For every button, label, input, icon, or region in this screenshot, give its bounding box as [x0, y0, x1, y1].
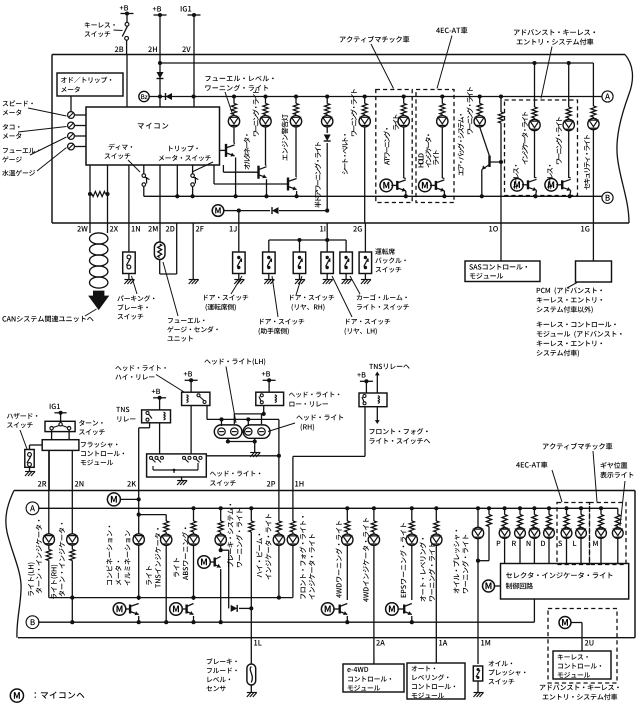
wire 1H [364, 407, 366, 457]
wire 2B to micom [126, 55, 128, 108]
brake fluid level sensor [247, 664, 256, 685]
auto leveling box [407, 663, 465, 699]
B rail top band [144, 195, 602, 197]
keyless module box [553, 651, 611, 679]
dashed box adv keyless [505, 100, 578, 196]
wire 2X [107, 165, 109, 233]
door switch rear LH [321, 252, 334, 274]
diode bus2 [166, 93, 173, 100]
M circle keyless [559, 617, 571, 629]
brake diode to 1L [221, 549, 229, 551]
wire 2M [159, 165, 161, 242]
label oil pressure switch [489, 661, 513, 667]
hi relay +B [184, 371, 192, 376]
+B terminal (2B) [121, 13, 134, 15]
label door switch driver [204, 295, 248, 301]
headlight feed line hi [207, 418, 279, 420]
label door switch passenger [260, 319, 304, 325]
label front fog switch he [369, 428, 427, 435]
lamp airbag warning light [479, 97, 481, 104]
odo/trip meter box [57, 73, 123, 96]
wire 2W [89, 165, 91, 233]
+B terminal (2H) [154, 14, 167, 16]
lamp turn indicator RH [71, 491, 73, 534]
label airbag warning [458, 114, 465, 176]
B rail bottom band [26, 616, 39, 629]
label gear position light [601, 462, 628, 469]
dashed box activematic (AT) [376, 90, 412, 203]
label 2K [127, 481, 136, 487]
label activematic bottom [543, 443, 613, 450]
sensor circles [68, 112, 75, 119]
label activematic top [340, 36, 410, 43]
label turn LH [28, 563, 35, 596]
parking brake switch [123, 252, 136, 274]
label flasher module [81, 442, 118, 448]
label TNS relay he [369, 364, 409, 370]
label fog indicator [300, 516, 307, 599]
wire 2R [48, 450, 50, 491]
M circle top [212, 205, 224, 217]
label keyless control module [537, 321, 616, 327]
label tachometer [3, 124, 20, 130]
label water temp gauge [2, 170, 35, 176]
lamp AT warning light [403, 97, 405, 104]
lamp feed bus (bus2) [149, 96, 602, 98]
headlight grounds [227, 438, 229, 441]
headlight feed line lo [234, 413, 263, 415]
dashed box 4EC-AT (HOLD) [416, 90, 454, 203]
buckle switch [359, 252, 372, 274]
lamp fog indicator [292, 491, 294, 521]
hl switch to 2P wire [206, 455, 279, 457]
label PCM [537, 287, 602, 294]
trip switch [192, 165, 194, 174]
label 4EC-AT bottom [516, 461, 547, 468]
label ABS warning [173, 558, 179, 577]
TNS relay box [142, 410, 171, 423]
label keyless warning [547, 165, 553, 190]
label brake fluid sensor [207, 658, 237, 664]
A bus [26, 502, 39, 515]
label turn switch [79, 420, 103, 426]
lo relay +B [262, 371, 270, 376]
label alternator warning [244, 134, 250, 169]
SAS module box [500, 223, 502, 261]
selector to B rail [533, 599, 535, 622]
label trip meter switch [169, 145, 198, 151]
wire 1L brake fluid [249, 506, 253, 510]
flasher module box [42, 440, 79, 451]
lamp auto leveling [434, 506, 438, 510]
lamp turn indicator LH [48, 450, 50, 534]
label 4EC-AT top [436, 27, 467, 34]
TNS relay to 2K [149, 423, 151, 428]
dimmer switch [143, 165, 145, 174]
label CAN system [2, 315, 93, 322]
lo relay box [256, 392, 284, 405]
driver M-Q8 illum [113, 603, 126, 616]
transistor Q2 [222, 165, 224, 172]
transistor Q1 [220, 149, 227, 151]
oil pressure switch [473, 666, 482, 681]
e-4WD box [343, 664, 404, 692]
label AT warning [384, 128, 391, 165]
driver M-Q5 HOLD [419, 179, 432, 192]
lamp TNS indicator [139, 514, 167, 516]
fog relay +B [357, 372, 365, 377]
lamp keyless warning light [568, 63, 570, 107]
label headlight switch [210, 471, 260, 477]
wire 2G [364, 223, 366, 252]
wire SAS feed 1O [500, 97, 502, 113]
lamp oil pressure warning [476, 506, 480, 510]
label hi-beam indicator [256, 534, 262, 578]
wire 2P [278, 419, 280, 491]
transistor Q airbag [480, 127, 490, 156]
lo relay outputs [263, 406, 265, 414]
headlight switch box [147, 454, 207, 477]
driver M-Q7 keyless warn [545, 179, 558, 192]
label 4WD indicator [363, 518, 369, 602]
driver M-Q10 brake [198, 556, 211, 569]
+B bus (bus1) [160, 62, 593, 64]
CAN twisted pair coil [90, 233, 108, 244]
label door switch rear RH [290, 295, 334, 301]
label fuel level warning [205, 76, 273, 82]
label headlight hi relay [115, 365, 165, 371]
label speedometer [3, 100, 33, 106]
label turn RH [51, 565, 58, 599]
lamp engine warning light [295, 97, 297, 104]
wire 1N [128, 165, 130, 252]
hi relay box [182, 392, 210, 405]
label seat belt warning [342, 134, 348, 174]
label HOLD indicator [418, 153, 423, 167]
label buckle switch [375, 248, 395, 254]
node A circle [602, 91, 613, 102]
pin labels top band [77, 226, 87, 232]
label door switch rear LH [346, 319, 390, 325]
driver M-Q9 ABS [170, 603, 183, 616]
lamp keyless indicator light [534, 63, 536, 107]
M circle selector [483, 580, 495, 592]
door switch driver side [233, 252, 246, 274]
label adv keyless bottom [540, 684, 619, 690]
IG1 terminal (2V) [188, 14, 201, 16]
gear position lamps P R N D S L M [503, 506, 507, 510]
headlight LH unit [214, 425, 242, 438]
wire 2N [71, 450, 73, 491]
resistor CAN [92, 191, 106, 196]
diode on 2H wire [157, 72, 164, 79]
lamp ABS warning [191, 506, 195, 510]
fog relay up arrow [376, 374, 378, 393]
label headlight RH [296, 414, 343, 420]
PCM box [592, 223, 594, 261]
label adv keyless top [514, 29, 595, 35]
collector rail [49, 597, 293, 599]
keyless switch [126, 14, 128, 23]
label TNS relay [116, 407, 129, 412]
wire 1J [238, 211, 240, 252]
label combination meter illum [106, 526, 112, 585]
M circle 2K [107, 493, 120, 506]
label fuel sender [168, 318, 205, 323]
fuel gauge sender unit [154, 242, 165, 260]
dashed adv keyless box bottom [548, 609, 617, 684]
driver M-Q6 keyless ind [511, 179, 524, 192]
lamp brake system warning [219, 506, 223, 510]
wires turn to flasher [51, 430, 53, 440]
TNS relay to hl switch [159, 423, 161, 454]
transistor Q3 [214, 183, 288, 185]
label brake system warning [227, 504, 233, 567]
TNS relay +B [152, 389, 160, 394]
lamp security light [592, 63, 594, 106]
label TNS indicator [146, 566, 152, 585]
buzzer Bz [139, 91, 149, 101]
label auto leveling [420, 538, 427, 602]
driver M-Q4 AT [380, 179, 393, 192]
micom box [86, 107, 220, 165]
lamp seat belt warning light [364, 97, 366, 104]
node B circle [602, 192, 613, 203]
hazard switch [30, 444, 43, 446]
fog relay down arrow [376, 407, 378, 422]
label dimmer switch [109, 144, 133, 150]
wire 2V [193, 15, 195, 107]
diode M line [239, 210, 270, 212]
diode half-door [324, 135, 331, 142]
lamp alternator warning light [265, 97, 267, 104]
label hazard switch [7, 413, 37, 419]
bottom band outer box [14, 490, 635, 492]
driver M-Q12 EPS [386, 603, 399, 616]
label cargo room switch [357, 294, 407, 300]
selector box [501, 564, 629, 600]
wire 1I [326, 223, 328, 252]
headlight drop wires [221, 419, 223, 426]
headlight RH unit [243, 425, 270, 438]
lamp fuel-level warning light [233, 97, 235, 104]
headlight switch ground [181, 477, 183, 480]
label 4WD warning [336, 521, 343, 598]
door switch rear RH [299, 240, 301, 252]
door link wire [269, 239, 346, 241]
top band outer box (torn right edge) [52, 54, 625, 56]
door switch passenger [268, 240, 270, 252]
dashed activematic box bottom [590, 503, 627, 565]
IG1 terminal turn [50, 404, 60, 410]
label EPS warning [400, 523, 407, 597]
wire 2H [159, 15, 161, 107]
M legend [10, 689, 23, 702]
lamp 4WD warning [345, 506, 349, 510]
label engine warning [282, 114, 289, 160]
dashed 4EC-AT box bottom [557, 503, 590, 565]
label half-door warning [315, 142, 322, 208]
hi relay outputs [190, 406, 192, 454]
driver M-Q11 4WD [321, 603, 334, 616]
lamp half-door warning light [326, 97, 328, 104]
lamp EPS warning [410, 506, 414, 510]
label security light [584, 135, 590, 190]
lamp HOLD indicator light [441, 97, 443, 104]
label fuel gauge [3, 148, 40, 153]
micom pin 2D [176, 165, 178, 196]
label keyless switch [85, 22, 115, 28]
lamp combination meter illumination [138, 491, 140, 534]
lamp 4WD indicator [372, 506, 376, 510]
label headlight LH [204, 358, 265, 365]
resistor feed to oil lamp [487, 506, 491, 510]
cargo room switch [345, 240, 347, 252]
turn switch box [45, 421, 75, 431]
wire odo to sensor [70, 96, 72, 112]
label keyless indicator [513, 165, 519, 190]
fog relay box [359, 393, 387, 407]
lamp hi-beam indicator [278, 491, 280, 521]
label parking brake switch [117, 295, 154, 301]
wire 2F ground [192, 223, 194, 279]
label lo relay [289, 392, 339, 398]
CAN arrow [89, 291, 109, 310]
label oil pressure warning [453, 530, 460, 594]
